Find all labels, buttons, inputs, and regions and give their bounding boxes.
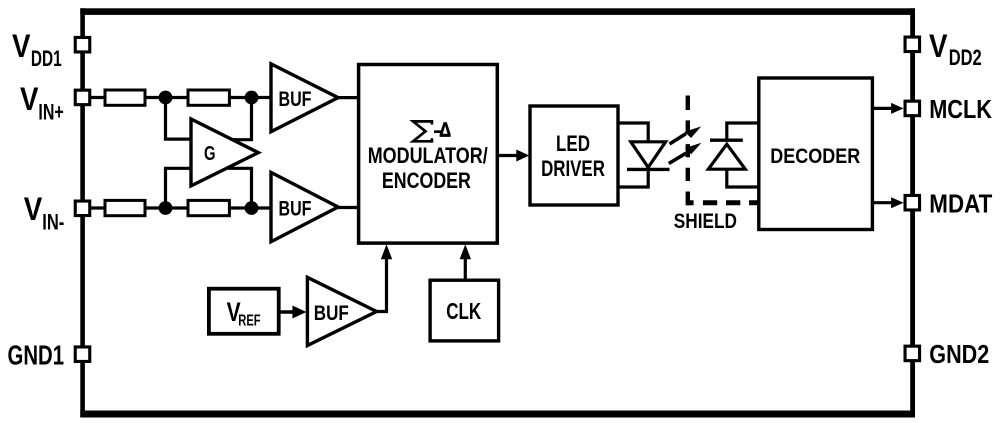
svg-text:MCLK: MCLK [929,94,992,124]
light emission arrow 2 [669,143,702,164]
resistor R1 [105,90,145,105]
buffer BUF3 [307,277,376,345]
LED diode D1 [627,142,670,170]
label VDD2 [929,28,982,70]
wire VIN- rail [84,206,272,209]
resistor R3 [105,200,145,215]
wire BUF1 output to modulator [338,96,359,99]
pin VIN+ [75,90,90,105]
light emission arrow 1 [670,126,702,144]
svg-text:SHIELD: SHIELD [674,209,737,233]
svg-text:MDAT: MDAT [929,188,992,218]
svg-text:V: V [20,81,39,117]
svg-text:CLK: CLK [446,298,481,324]
svg-text:G: G [204,143,216,165]
svg-text:ENCODER: ENCODER [382,168,471,193]
svg-text:DECODER: DECODER [770,145,860,168]
svg-text:DRIVER: DRIVER [541,156,605,181]
wire photodiode branch top [727,123,760,140]
wire G input bottom [166,168,192,208]
svg-text:BUF: BUF [279,197,312,220]
svg-text:DD1: DD1 [31,46,62,71]
svg-text:V: V [24,191,43,227]
pin VDD2 [905,37,920,52]
decoder box U2 [759,78,873,230]
wire decoder to MDAT pin [872,201,892,204]
pin VDD1 [75,37,90,52]
buffer BUF2 [271,172,338,241]
wire G output top [233,98,252,140]
VREF box [209,289,279,334]
svg-text:BUF: BUF [279,88,312,111]
node junction dot A1 [159,91,173,105]
label VIN+ [20,81,64,124]
LED driver box [530,106,618,205]
svg-text:REF: REF [238,312,260,329]
buffer BUF1 [271,64,338,132]
wire G output bottom [227,168,252,208]
pin MDAT [905,195,920,210]
pin MCLK [905,101,920,116]
pin VIN- [75,201,90,216]
svg-text:GND1: GND1 [8,339,64,370]
wire BUF3 output up into modulator [377,257,387,312]
photodiode D2 [708,140,745,169]
svg-text:BUF: BUF [314,302,349,325]
svg-text:IN-: IN- [42,209,64,234]
pin GND1 [75,347,90,362]
wire LED branch top [618,123,648,142]
label VDD1 [12,28,62,71]
svg-text:V: V [929,28,948,64]
label VIN- [24,191,65,234]
wire modulator output arrow to LED driver [497,154,518,157]
sigma-delta modulator/encoder box U1 [359,65,498,244]
wire LED branch bottom [618,169,648,187]
node junction dot B1 [245,91,259,105]
svg-text:Δ: Δ [439,119,451,142]
node junction dot B2 [245,201,259,215]
wire VREF arrow to BUF3 [279,310,296,313]
svg-text:GND2: GND2 [929,339,989,369]
wire G input top [166,98,192,140]
amplifier G [191,119,258,186]
wire CLK up into modulator [464,258,467,280]
resistor R2 [188,90,229,105]
wire decoder to MCLK pin [872,107,892,110]
resistor R4 [188,200,229,215]
pin GND2 [905,346,920,361]
shield dashed barrier [686,96,690,206]
node junction dot A2 [159,201,173,215]
svg-text:MODULATOR/: MODULATOR/ [368,143,489,168]
CLK box [430,280,499,341]
svg-text:V: V [12,28,31,64]
svg-text:DD2: DD2 [949,45,982,70]
wire photodiode branch bottom [727,169,760,187]
wire BUF2 output to modulator [338,206,359,209]
svg-text:LED: LED [556,131,590,156]
svg-text:IN+: IN+ [38,99,63,124]
wire VIN+ rail [84,96,272,99]
